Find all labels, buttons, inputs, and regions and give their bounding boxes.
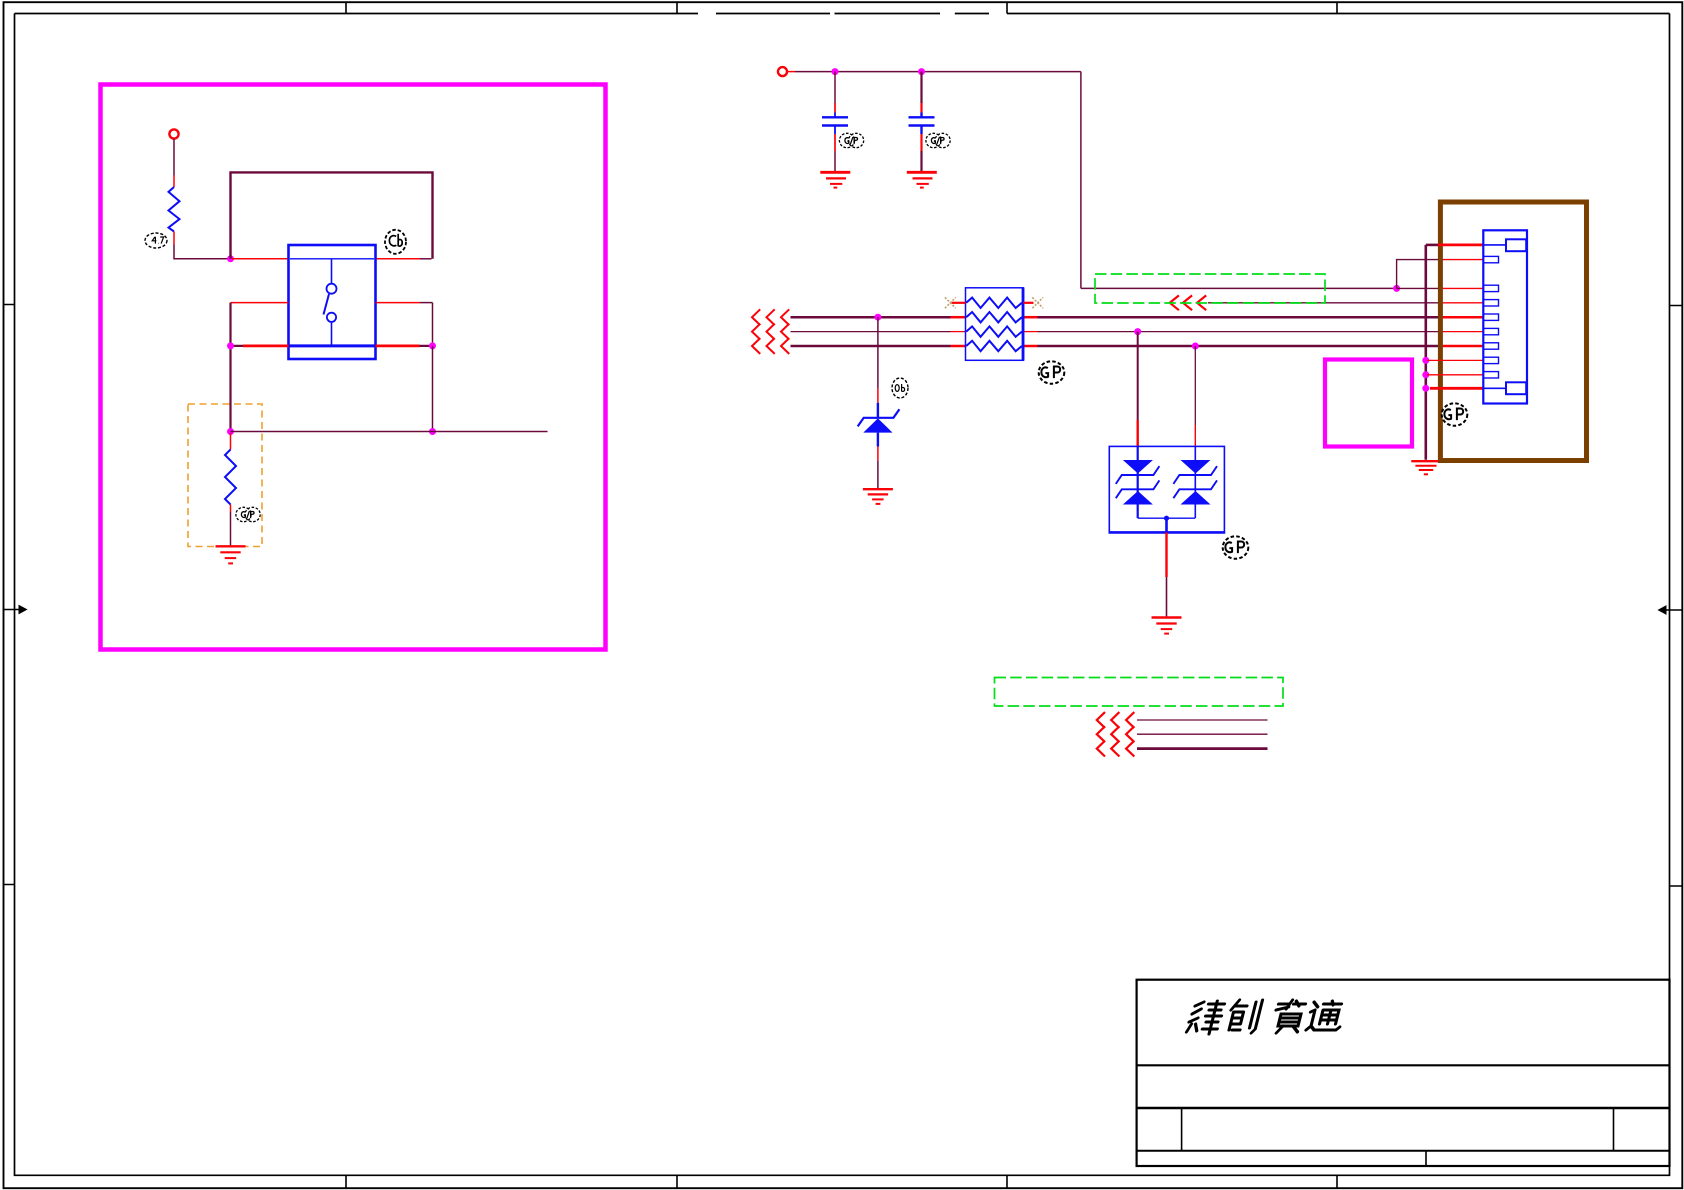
off-page chevrons bus line1 [752,309,789,354]
wire top rail [795,71,1081,73]
wire [420,258,432,260]
wire to pin2 [1397,260,1438,289]
block (magenta outline small) [1325,360,1412,447]
wire [230,512,232,546]
wire lower line2 [1137,733,1268,735]
resistor RN1-C [966,326,1022,336]
bus line2 stub right [1024,331,1038,333]
node junction [227,342,234,349]
ground D1 [863,489,893,504]
capacitor C1 [822,72,848,171]
bus line3 stub right [1024,345,1038,348]
bus line2 wire right [1038,331,1439,333]
wire pin6 stub [1438,331,1483,333]
wire lower line3 thick [1137,747,1268,750]
connector J1 pin1 box [1483,239,1526,251]
off-page chevrons lower line3 [1097,741,1135,757]
bus line2 wire [791,331,951,333]
label G/P C1 [839,133,863,147]
wire TVS left branch [1137,332,1139,420]
wire loop over switch [231,172,433,258]
connector J1 pin5 box [1483,314,1498,320]
connector J1 pin10 box [1483,382,1526,394]
wire [420,302,433,304]
connector J1 pin7 box [1483,343,1498,349]
bus line3 wire right [1038,345,1439,348]
wire pin stub [787,71,795,73]
kanji 緯 [1186,1001,1225,1034]
resistor RN1-B [966,312,1022,322]
wire [173,139,175,176]
node junction [918,68,925,75]
stub row1 left [951,302,966,304]
title block [1137,980,1670,1166]
wire [174,245,230,259]
ground C2 [907,172,937,187]
wire pin7 stub [1438,345,1483,348]
resistor RN1-D [966,341,1022,351]
node junction [1134,328,1141,335]
off-page arrows pin4 net [1170,295,1206,310]
left center arrow [3,606,27,614]
off-page chevrons bus line3 [752,338,789,354]
wire pin stub [1165,532,1167,577]
TVS cell B [1173,446,1217,518]
wire middle right [376,302,421,304]
node junction [1422,385,1429,392]
resistor R1 [169,187,180,232]
company logotype 緯創資通 (drawn strokes) [1186,1000,1346,1034]
node junction [1422,371,1429,378]
bus line3 wire [791,345,951,348]
connector J1 pin6 box [1483,328,1498,334]
resistor RN1-A [966,298,1022,308]
node junction [1422,357,1429,364]
wire pin5 stub [1438,316,1483,319]
wire pin9 stub [1427,374,1483,376]
wire lower line1 [1137,719,1268,721]
switch SW1 internals [290,259,374,346]
wire pin8 stub [1427,359,1483,361]
wire pin10 stub [1430,387,1483,390]
wire TVS left stub [1136,420,1138,446]
node junction [227,428,234,435]
TVS cell A [1116,446,1160,518]
wire TVS right branch [1194,346,1196,425]
resistor network RN1 box [966,288,1024,361]
stub row1 right [1024,302,1034,304]
ground C1 [820,172,850,187]
TVS array U1 box [1109,446,1224,532]
node junction [874,314,881,321]
label G/P C2 [926,133,950,147]
kanji 資 [1270,1000,1306,1033]
label GP TVS [1223,536,1249,558]
label GP RN1 [1039,361,1065,383]
wire pin stub [230,505,232,513]
wire [231,431,548,433]
connector J1 body [1483,230,1527,403]
ground connector [1411,461,1438,474]
wire pin2 stub [1438,259,1483,261]
right center arrow [1659,606,1683,614]
TVS common pin [1165,518,1168,532]
capacitor C2 [909,72,935,171]
wire [229,303,231,432]
wire zener branch [877,317,879,388]
connector J1 pin4 box [1483,300,1498,306]
wire pin1 stub [1438,243,1483,246]
wire pin stub [173,232,175,245]
kanji 創 [1225,1000,1262,1033]
value label D1 [892,378,908,398]
wire pin stub [877,447,879,461]
wire pin3 stub [1438,287,1483,289]
wire [877,461,879,488]
TVS common node [1164,516,1169,521]
wire pin1 [1426,244,1438,247]
connector J1 pin2 box [1483,256,1498,262]
no-connect X right [1032,297,1043,308]
wire pin stub [230,433,232,450]
kanji 通 [1306,1001,1346,1030]
wire TVS right stub [1194,425,1196,446]
off-page chevrons lower line1 [1097,712,1135,756]
connector pin P2 (red open circle) [778,67,787,76]
bus line3 stub [951,345,966,348]
node junction [429,342,436,349]
zener diode D1 [858,403,900,447]
label GP connector [1442,403,1468,425]
connector J1 pin8 box [1483,357,1498,363]
optional resistor area (orange dashed) [188,404,262,547]
ground TVS [1152,618,1182,634]
resistor R2 [225,450,236,505]
connector J1 pin3 box [1483,285,1498,291]
connector pin P1 (red open circle) [169,129,178,138]
wire pin stub [877,389,879,403]
bus line1 wire right [1038,316,1439,319]
wire middle left [231,302,289,304]
wire [1166,577,1168,617]
wire [432,346,434,432]
wire from switch pin [376,258,421,260]
ground bus wire vertical [1425,245,1428,460]
wire to pin3 [1397,287,1438,289]
wire rail down [1080,72,1082,289]
bus line1 stub [951,316,966,319]
value label R1 [145,233,167,248]
wire bottom row thick [231,345,433,347]
wire [432,303,434,346]
bus line2 stub [951,331,966,333]
wire pin4 net [1208,302,1438,304]
node junction [429,428,436,435]
connector block (brown outline) [1440,202,1586,461]
node junction [227,255,234,262]
wire to switch pin [232,258,289,260]
bus line1 stub right [1024,316,1038,319]
no-connect X left [945,297,956,308]
note box (green dashed) lower [995,678,1284,707]
wire pin4 stub [1438,302,1483,304]
label G/P [236,507,260,521]
reference label Cb [385,230,406,254]
off-page chevrons lower line2 [1097,726,1135,742]
connector J1 pin9 box [1483,372,1498,378]
node junction [1393,285,1400,292]
wire rail right [1081,287,1397,289]
bus line1 wire [791,316,951,319]
wire pin stub [173,176,175,188]
note box (green dashed) upper [1095,274,1325,303]
hierarchical block (magenta outline) [101,85,606,650]
off-page chevrons bus line2 [752,324,789,340]
node junction [832,68,839,75]
node junction [1192,343,1199,350]
TVS common wire [1138,517,1196,519]
ground [216,546,246,563]
switch SW1 box [289,245,376,359]
